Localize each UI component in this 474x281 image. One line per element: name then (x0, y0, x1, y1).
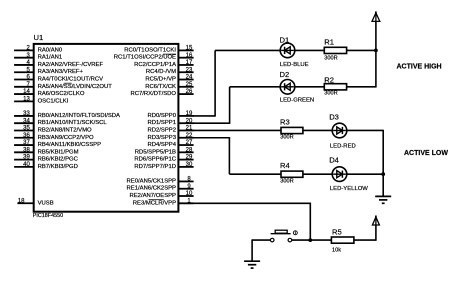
wire D3 to GND rail (346, 129, 383, 131)
wire RD1 pin20 to D2 row (193, 87, 281, 124)
pin 18 VUSB (17, 198, 53, 206)
svg-text:RD2/SPP2: RD2/SPP2 (148, 127, 176, 133)
svg-text:RD1/SPP1: RD1/SPP1 (148, 120, 176, 126)
svg-text:RB0/AN12/INT0/FLT0/SDI/SDA: RB0/AN12/INT0/FLT0/SDI/SDA (38, 113, 120, 119)
wire R4 to D4 (302, 173, 333, 175)
pin 19 RD0/SPP0 (148, 111, 194, 119)
ground symbol right rail (375, 196, 391, 203)
resistor R4 300R (280, 161, 303, 184)
power terminal VCC top (372, 11, 380, 21)
svg-text:34: 34 (23, 118, 30, 124)
svg-text:13: 13 (23, 96, 30, 102)
svg-text:29: 29 (186, 155, 193, 161)
LED D3 LED-RED (329, 113, 356, 150)
svg-text:RA0/AN0: RA0/AN0 (38, 47, 63, 53)
wire button left to ground (252, 239, 270, 261)
svg-text:RD4/SPP4: RD4/SPP4 (148, 142, 177, 148)
svg-text:RC4/D-/VM: RC4/D-/VM (146, 69, 176, 75)
svg-text:OSC1/CLKI: OSC1/CLKI (38, 98, 69, 104)
svg-text:20: 20 (186, 118, 193, 124)
resistor R5 10k (331, 227, 354, 253)
wire D1 to R1 (294, 49, 326, 51)
pin 21 RD2/SPP2 (148, 126, 194, 134)
svg-text:RC6/TX/CK: RC6/TX/CK (145, 84, 176, 90)
svg-text:16: 16 (186, 53, 193, 59)
pin 39 RB6/KBI2/PGC (14, 155, 79, 163)
net label ACTIVE LOW (404, 150, 448, 157)
svg-text:RB4/AN11/KBI0/CSSPP: RB4/AN11/KBI0/CSSPP (38, 142, 101, 148)
pin 24 RC5/D+/VP (145, 75, 193, 83)
wire GND rail vertical (382, 130, 384, 197)
IC U1 microcontroller body (34, 44, 179, 212)
wire RE3 pin1 to button net (178, 203, 310, 241)
svg-text:RA1/AN1: RA1/AN1 (38, 55, 63, 61)
svg-text:RE2/AN7/OESPP: RE2/AN7/OESPP (130, 193, 177, 199)
pin 23 RC4/D-/VM (146, 67, 194, 75)
svg-text:LED-GREEN: LED-GREEN (280, 98, 314, 104)
LED D1 LED-BLUE (280, 35, 309, 68)
svg-text:24: 24 (186, 75, 193, 81)
junction dot button node (308, 238, 312, 242)
svg-text:RD6/SPP6/P1C: RD6/SPP6/P1C (134, 157, 176, 163)
svg-text:RD0/SPP0: RD0/SPP0 (148, 113, 177, 119)
svg-text:RC5/D+/VP: RC5/D+/VP (145, 77, 176, 83)
pin 25 RC6/TX/CK (145, 82, 193, 90)
pin 2 RA0/AN0 (14, 46, 63, 54)
resistor R3 300R (280, 117, 303, 140)
pin 40 RB7/KBI3/PGD (14, 162, 78, 170)
svg-text:RB6/KBI2/PGC: RB6/KBI2/PGC (38, 157, 79, 163)
svg-text:RB3/AN9/CCP2/VPO: RB3/AN9/CCP2/VPO (38, 135, 94, 141)
svg-text:33: 33 (23, 111, 30, 117)
pin 16 RC1/T1OSI/CCP2/UOE (114, 53, 194, 61)
svg-text:D3: D3 (329, 113, 339, 122)
svg-text:300R: 300R (280, 135, 293, 141)
svg-text:D4: D4 (329, 156, 339, 165)
resistor R1 300R (324, 37, 346, 61)
pin 15 RC0/T1OSO/T1CKI (124, 46, 193, 54)
svg-text:37: 37 (23, 140, 30, 146)
svg-text:RE0/AN5/CK1SPP: RE0/AN5/CK1SPP (127, 178, 177, 184)
svg-text:LED-BLUE: LED-BLUE (280, 62, 309, 68)
wire R2 to VCC rail (346, 86, 376, 88)
wire D2 to R2 (294, 86, 326, 88)
pin 38 RB5/KBI1/PGM (14, 147, 79, 155)
svg-text:RC0/T1OSO/T1CKI: RC0/T1OSO/T1CKI (124, 47, 176, 53)
pin 4 RA2/AN2/VREF-/CVREF (14, 60, 103, 68)
wire RD2 pin21 to R3 (193, 129, 282, 131)
pin 30 RD7/SPP7/P1D (134, 162, 193, 170)
svg-text:LED-RED: LED-RED (330, 144, 356, 150)
wire R1 to VCC rail (346, 49, 376, 51)
pin 22 RD3/SPP3 (148, 133, 194, 141)
svg-text:26: 26 (186, 89, 193, 95)
wire VCC rail vertical (375, 12, 377, 88)
wire D4 to GND rail (346, 173, 383, 175)
svg-text:VUSB: VUSB (38, 200, 54, 206)
pin 28 RD5/SPP5/P1B (135, 147, 194, 155)
pin 36 RB3/AN9/CCP2/VPO (14, 133, 94, 141)
svg-text:ACTIVE HIGH: ACTIVE HIGH (397, 63, 442, 70)
pin 14 RA6/OSC2/CLKO (14, 89, 85, 97)
svg-text:RA6/OSC2/CLKO: RA6/OSC2/CLKO (38, 91, 85, 97)
pin 3 RA1/AN1 (14, 53, 62, 61)
pin 20 RD1/SPP1 (148, 118, 194, 126)
pin 7 RA5/AN4/SS/LVDIN/C2OUT (14, 82, 112, 90)
svg-text:U1: U1 (34, 33, 44, 42)
pin 13 OSC1/CLKI (14, 96, 69, 104)
svg-text:RD7/SPP7/P1D: RD7/SPP7/P1D (134, 164, 176, 170)
wire R5 to VCC2 (353, 216, 376, 241)
svg-text:30: 30 (186, 162, 193, 168)
svg-text:10k: 10k (332, 248, 341, 254)
svg-text:300R: 300R (324, 90, 337, 96)
resistor R2 300R (324, 76, 346, 97)
svg-text:35: 35 (23, 126, 30, 132)
svg-text:LED-YELLOW: LED-YELLOW (330, 186, 368, 192)
svg-text:RA5/AN4/SS/LVDIN/C2OUT: RA5/AN4/SS/LVDIN/C2OUT (38, 84, 113, 90)
svg-text:RE3/MCLR/VPP: RE3/MCLR/VPP (133, 200, 176, 206)
svg-text:RB5/KBI1/PGM: RB5/KBI1/PGM (38, 149, 79, 155)
push button SW1 (270, 230, 297, 242)
chip refdes U1 (34, 33, 44, 42)
svg-text:22: 22 (186, 133, 193, 139)
pin 35 RB2/AN8/INT2/VMO (14, 126, 92, 134)
pin 37 RB4/AN11/KBI0/CSSPP (14, 140, 101, 148)
svg-text:ACTIVE LOW: ACTIVE LOW (404, 150, 448, 157)
chip value PIC18F4550 (33, 213, 63, 219)
LED D4 LED-YELLOW (329, 156, 368, 192)
pin 6 RA4/T0CKI/C1OUT/RCV (14, 75, 103, 83)
svg-text:23: 23 (186, 67, 193, 73)
pin 10 RE2/AN7/OESPP (130, 191, 194, 199)
wire R3 to D3 (302, 129, 333, 131)
svg-text:RD3/SPP3: RD3/SPP3 (148, 135, 177, 141)
svg-text:PIC18F4550: PIC18F4550 (33, 213, 63, 219)
svg-text:14: 14 (23, 89, 30, 95)
svg-text:RB1/AN10/INT1/SCK/SCL: RB1/AN10/INT1/SCK/SCL (38, 120, 108, 126)
svg-text:25: 25 (186, 82, 193, 88)
svg-text:300R: 300R (280, 178, 293, 184)
wire RD0 pin19 to D1 row (193, 50, 281, 116)
svg-text:RE1/AN6/CK2SPP: RE1/AN6/CK2SPP (127, 186, 177, 192)
pin 8 RE0/AN5/CK1SPP (127, 177, 194, 185)
wire RD3 pin22 to R4 row (193, 137, 282, 174)
junction dot rail1 D1 row (374, 49, 378, 53)
LED D2 LED-GREEN (280, 70, 315, 103)
pin 26 RC7/RX/DT/SDO (131, 89, 194, 97)
pin 5 RA3/AN3/VREF+ (14, 67, 83, 75)
svg-text:R4: R4 (280, 161, 290, 170)
svg-text:10: 10 (186, 191, 193, 197)
wire button right to R5 (292, 239, 333, 241)
svg-text:RD5/SPP5/P1B: RD5/SPP5/P1B (135, 149, 176, 155)
svg-text:38: 38 (23, 147, 30, 153)
ground symbol button (244, 261, 260, 268)
svg-text:15: 15 (186, 46, 193, 52)
junction dot rail2 D4 row (381, 172, 385, 176)
svg-text:RC2/CCP1/P1A: RC2/CCP1/P1A (134, 62, 176, 68)
svg-text:RA4/T0CKI/C1OUT/RCV: RA4/T0CKI/C1OUT/RCV (38, 77, 104, 83)
svg-text:RA2/AN2/VREF-/CVREF: RA2/AN2/VREF-/CVREF (38, 62, 104, 68)
pin 33 RB0/AN12/INT0/FLT0/SDI/SDA (14, 111, 120, 119)
pin 27 RD4/SPP4 (148, 140, 194, 148)
svg-text:D2: D2 (280, 70, 290, 79)
svg-text:39: 39 (23, 155, 30, 161)
svg-text:RC1/T1OSI/CCP2/UOE: RC1/T1OSI/CCP2/UOE (114, 55, 176, 61)
svg-text:RA3/AN3/VREF+: RA3/AN3/VREF+ (38, 69, 84, 75)
svg-text:R2: R2 (324, 76, 334, 85)
svg-text:RB2/AN8/INT2/VMO: RB2/AN8/INT2/VMO (38, 127, 92, 133)
svg-text:D1: D1 (280, 35, 290, 44)
pin 29 RD6/SPP6/P1C (134, 155, 193, 163)
svg-text:300R: 300R (324, 56, 337, 62)
pin 9 RE1/AN6/CK2SPP (127, 184, 194, 192)
svg-text:36: 36 (23, 133, 30, 139)
svg-text:21: 21 (186, 126, 193, 132)
svg-text:RC7/RX/DT/SDO: RC7/RX/DT/SDO (131, 91, 177, 97)
svg-text:R1: R1 (324, 37, 334, 46)
pin 34 RB1/AN10/INT1/SCK/SCL (14, 118, 107, 126)
power terminal VCC at R5 (372, 216, 379, 226)
svg-text:18: 18 (18, 198, 25, 204)
svg-text:17: 17 (186, 60, 193, 66)
net label ACTIVE HIGH (397, 63, 442, 70)
pin 1 RE3/MCLR/VPP (133, 198, 194, 206)
svg-text:40: 40 (23, 162, 30, 168)
svg-text:R3: R3 (280, 117, 290, 126)
svg-text:19: 19 (186, 111, 193, 117)
svg-text:R5: R5 (332, 227, 342, 236)
svg-text:RB7/KBI3/PGD: RB7/KBI3/PGD (38, 164, 78, 170)
pin 17 RC2/CCP1/P1A (134, 60, 194, 68)
svg-text:28: 28 (186, 147, 193, 153)
svg-text:27: 27 (186, 140, 193, 146)
